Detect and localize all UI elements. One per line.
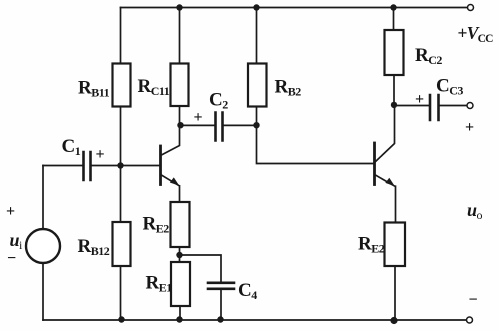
terminal output bottom	[467, 317, 473, 323]
wire RB11 branch top	[120, 8, 122, 64]
svg-text:ui: ui	[10, 230, 24, 252]
wire RE2 to RE1	[179, 247, 181, 262]
svg-text:C1: C1	[62, 136, 81, 158]
transistor Q2 collector	[375, 106, 395, 163]
node ground RE2 right	[390, 317, 397, 324]
wire C1 left	[43, 165, 82, 167]
wire RC11 branch top	[179, 8, 181, 64]
wire C1 to base node	[92, 165, 121, 167]
node collector Q2	[391, 102, 397, 108]
wire RC2 branch top	[393, 8, 395, 31]
wire top rail	[121, 7, 468, 9]
svg-text:CC3: CC3	[436, 76, 463, 98]
wire base node to Q1	[121, 165, 160, 167]
node top RB2	[253, 4, 259, 10]
wire RB2 to node	[256, 107, 258, 125]
wire RE1 to ground rail	[179, 306, 181, 320]
terminal output top	[467, 103, 473, 109]
wire CC3 to output terminal	[440, 105, 467, 107]
svg-text:RE2: RE2	[358, 234, 385, 256]
svg-text:RE2: RE2	[143, 214, 170, 236]
wire left input branch	[42, 166, 44, 321]
resistor RE1	[171, 262, 190, 306]
source ui circle	[26, 229, 60, 263]
wire node to Q2 base	[257, 125, 374, 163]
svg-text:uo: uo	[467, 200, 483, 222]
svg-text:RB2: RB2	[275, 77, 302, 99]
node top RC11	[176, 4, 182, 10]
svg-text:+: +	[465, 119, 474, 136]
resistor RB12	[113, 222, 131, 266]
wire collector node to CC3	[394, 105, 429, 107]
resistor RE2 right	[385, 223, 406, 267]
svg-text:RC2: RC2	[415, 45, 442, 67]
capacitor C1	[84, 152, 91, 180]
resistor RC2	[385, 30, 404, 75]
svg-text:+: +	[415, 91, 424, 108]
svg-text:−: −	[469, 292, 478, 309]
wire bottom rail	[43, 319, 467, 321]
terminal +Vcc	[468, 5, 474, 11]
node RB2 bottom	[253, 122, 259, 128]
transistor Q1 base bar	[159, 146, 162, 185]
node ground RB12	[118, 316, 124, 322]
capacitor C2	[216, 113, 223, 141]
wire RB2 branch top	[256, 8, 258, 64]
wire RC11 to collector node	[179, 106, 181, 125]
svg-text:+: +	[96, 146, 105, 163]
wire RB12 to ground rail	[120, 266, 122, 320]
resistor RC11	[171, 64, 189, 107]
wire RC2 to collector node	[393, 75, 395, 105]
svg-text:+: +	[194, 109, 203, 126]
arrowhead Q2 emitter	[385, 178, 395, 186]
svg-text:RB11: RB11	[78, 78, 110, 100]
node emitter Q1	[176, 252, 182, 258]
wire RB11 to base node	[120, 107, 122, 223]
node ground RE1	[176, 316, 182, 322]
resistor RB2	[248, 64, 267, 107]
transistor Q1 collector	[161, 125, 180, 156]
wire RE2 right to ground rail	[394, 266, 396, 320]
svg-text:C4: C4	[238, 280, 257, 302]
capacitor CC3	[430, 95, 439, 120]
resistor RE2 left	[171, 202, 190, 247]
svg-text:+VCC: +VCC	[458, 23, 494, 45]
node top RC2	[390, 4, 396, 10]
arrowhead Q1 emitter	[170, 177, 180, 185]
node collector Q1	[177, 122, 183, 128]
wire collector node to C2	[181, 124, 214, 126]
wire emitter node to C4	[180, 255, 222, 282]
svg-text:RB12: RB12	[78, 236, 110, 258]
node ground C4	[217, 316, 223, 322]
node base Q1	[117, 162, 123, 168]
resistor RB11	[113, 64, 131, 107]
svg-text:RE1: RE1	[146, 273, 173, 295]
capacitor C4	[208, 283, 234, 289]
transistor Q2 base bar	[373, 143, 376, 185]
wire C2 to RB2 node	[224, 124, 257, 126]
svg-text:C2: C2	[209, 90, 228, 112]
transistor Q1 emitter	[161, 175, 180, 203]
svg-text:RC11: RC11	[138, 76, 170, 98]
svg-text:−: −	[7, 250, 16, 267]
transistor Q2 emitter	[375, 175, 396, 223]
svg-text:+: +	[6, 203, 15, 220]
wire C4 to ground rail	[220, 290, 222, 320]
